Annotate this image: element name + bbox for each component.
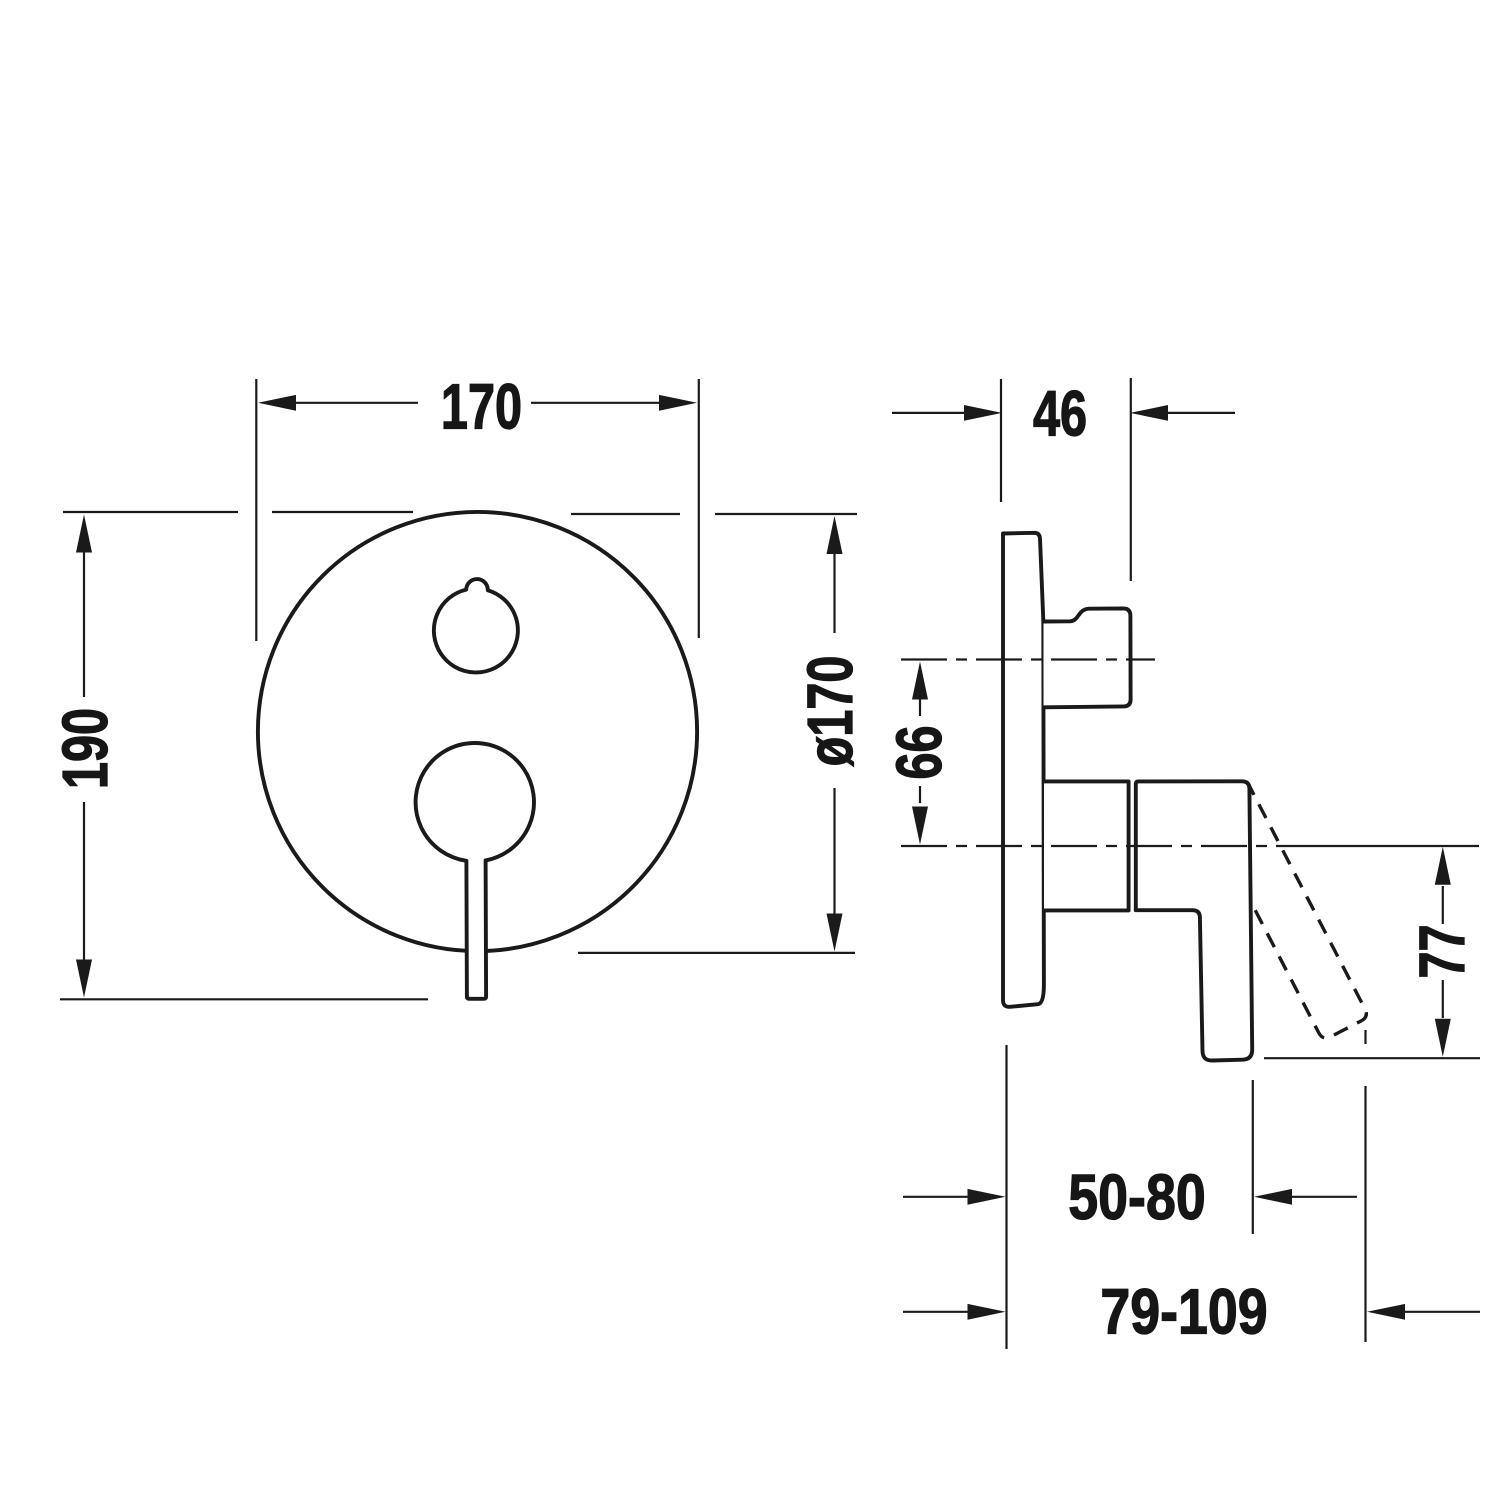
dim 66: top arrow xyxy=(912,662,928,700)
center line handle axis solid right part xyxy=(1281,845,1479,847)
lever dashed swung position xyxy=(1202,783,1369,1040)
dim 190: dimension line xyxy=(83,550,85,962)
dim 46: right extension line xyxy=(1130,378,1132,581)
svg-text:170: 170 xyxy=(441,372,522,443)
dim 170: left extension line xyxy=(255,379,257,641)
handle hub and lever bar (front) xyxy=(416,743,534,999)
dim 50-80: left arrow xyxy=(968,1189,1006,1205)
dim dia170: top arrow xyxy=(827,516,843,554)
dim 170: right extension line xyxy=(698,379,700,638)
dim 50-80: right arrow line xyxy=(1292,1196,1357,1198)
dim 190: bottom extension line xyxy=(60,998,428,1000)
svg-text:50-80: 50-80 xyxy=(1068,1161,1205,1234)
dim 170: dimension line xyxy=(296,402,660,404)
dim dia170: top extension line xyxy=(571,513,857,515)
svg-text:66: 66 xyxy=(885,725,956,779)
dim 66: bottom arrow xyxy=(912,807,928,845)
dim 79-109: right arrow line xyxy=(1405,1311,1480,1313)
dim 190: top arrow xyxy=(76,515,92,553)
dim 190: top extension line xyxy=(63,511,413,513)
svg-text:ø170: ø170 xyxy=(796,656,867,767)
dim 46: left arrow xyxy=(964,405,1002,421)
dim 170: left arrow xyxy=(258,395,296,411)
dim 190: bottom arrow xyxy=(76,960,92,998)
dim dia170: bottom extension line xyxy=(578,952,855,954)
lever side view solid xyxy=(1136,781,1252,1060)
dim 50-80: left arrow line xyxy=(903,1196,968,1198)
dim 79-109: left arrow xyxy=(968,1304,1006,1320)
svg-text:77: 77 xyxy=(1408,924,1479,978)
dim 77: top arrow xyxy=(1435,847,1451,885)
svg-text:190: 190 xyxy=(51,708,122,789)
dim 50-80: left extension line xyxy=(1005,1045,1007,1349)
dim 46: right arrow line xyxy=(1168,412,1235,414)
dim 66: dimension line xyxy=(919,699,921,803)
svg-text:46: 46 xyxy=(1033,379,1087,450)
handle base side view xyxy=(1044,781,1129,910)
svg-text:79-109: 79-109 xyxy=(1100,1275,1267,1348)
dim 46: right arrow xyxy=(1130,405,1168,421)
spout side view xyxy=(1044,608,1131,707)
dim 50-80: right extension line xyxy=(1252,1080,1254,1234)
dim 46: left extension line xyxy=(1000,379,1002,502)
dim 79-109: left arrow line xyxy=(903,1311,968,1313)
center line spout axis xyxy=(901,658,1155,660)
plate side view xyxy=(1003,533,1044,1007)
center line handle axis xyxy=(901,845,1281,847)
dim 77: bottom extension line xyxy=(1264,1057,1480,1059)
dim 46: left arrow line xyxy=(892,412,966,414)
dim 77: bottom arrow xyxy=(1435,1019,1451,1057)
plate front circle xyxy=(258,512,697,951)
diverter knob (small circle with bump) xyxy=(434,579,518,672)
dim 79-109: right arrow xyxy=(1367,1304,1405,1320)
dim dia170: bottom arrow xyxy=(827,914,843,952)
dim 79-109: right extension line xyxy=(1364,1030,1366,1342)
dim 77: dimension line xyxy=(1442,886,1444,1018)
dim 50-80: right arrow xyxy=(1254,1189,1292,1205)
dim dia170: dimension line xyxy=(833,552,835,918)
dim 170: right arrow xyxy=(659,395,697,411)
